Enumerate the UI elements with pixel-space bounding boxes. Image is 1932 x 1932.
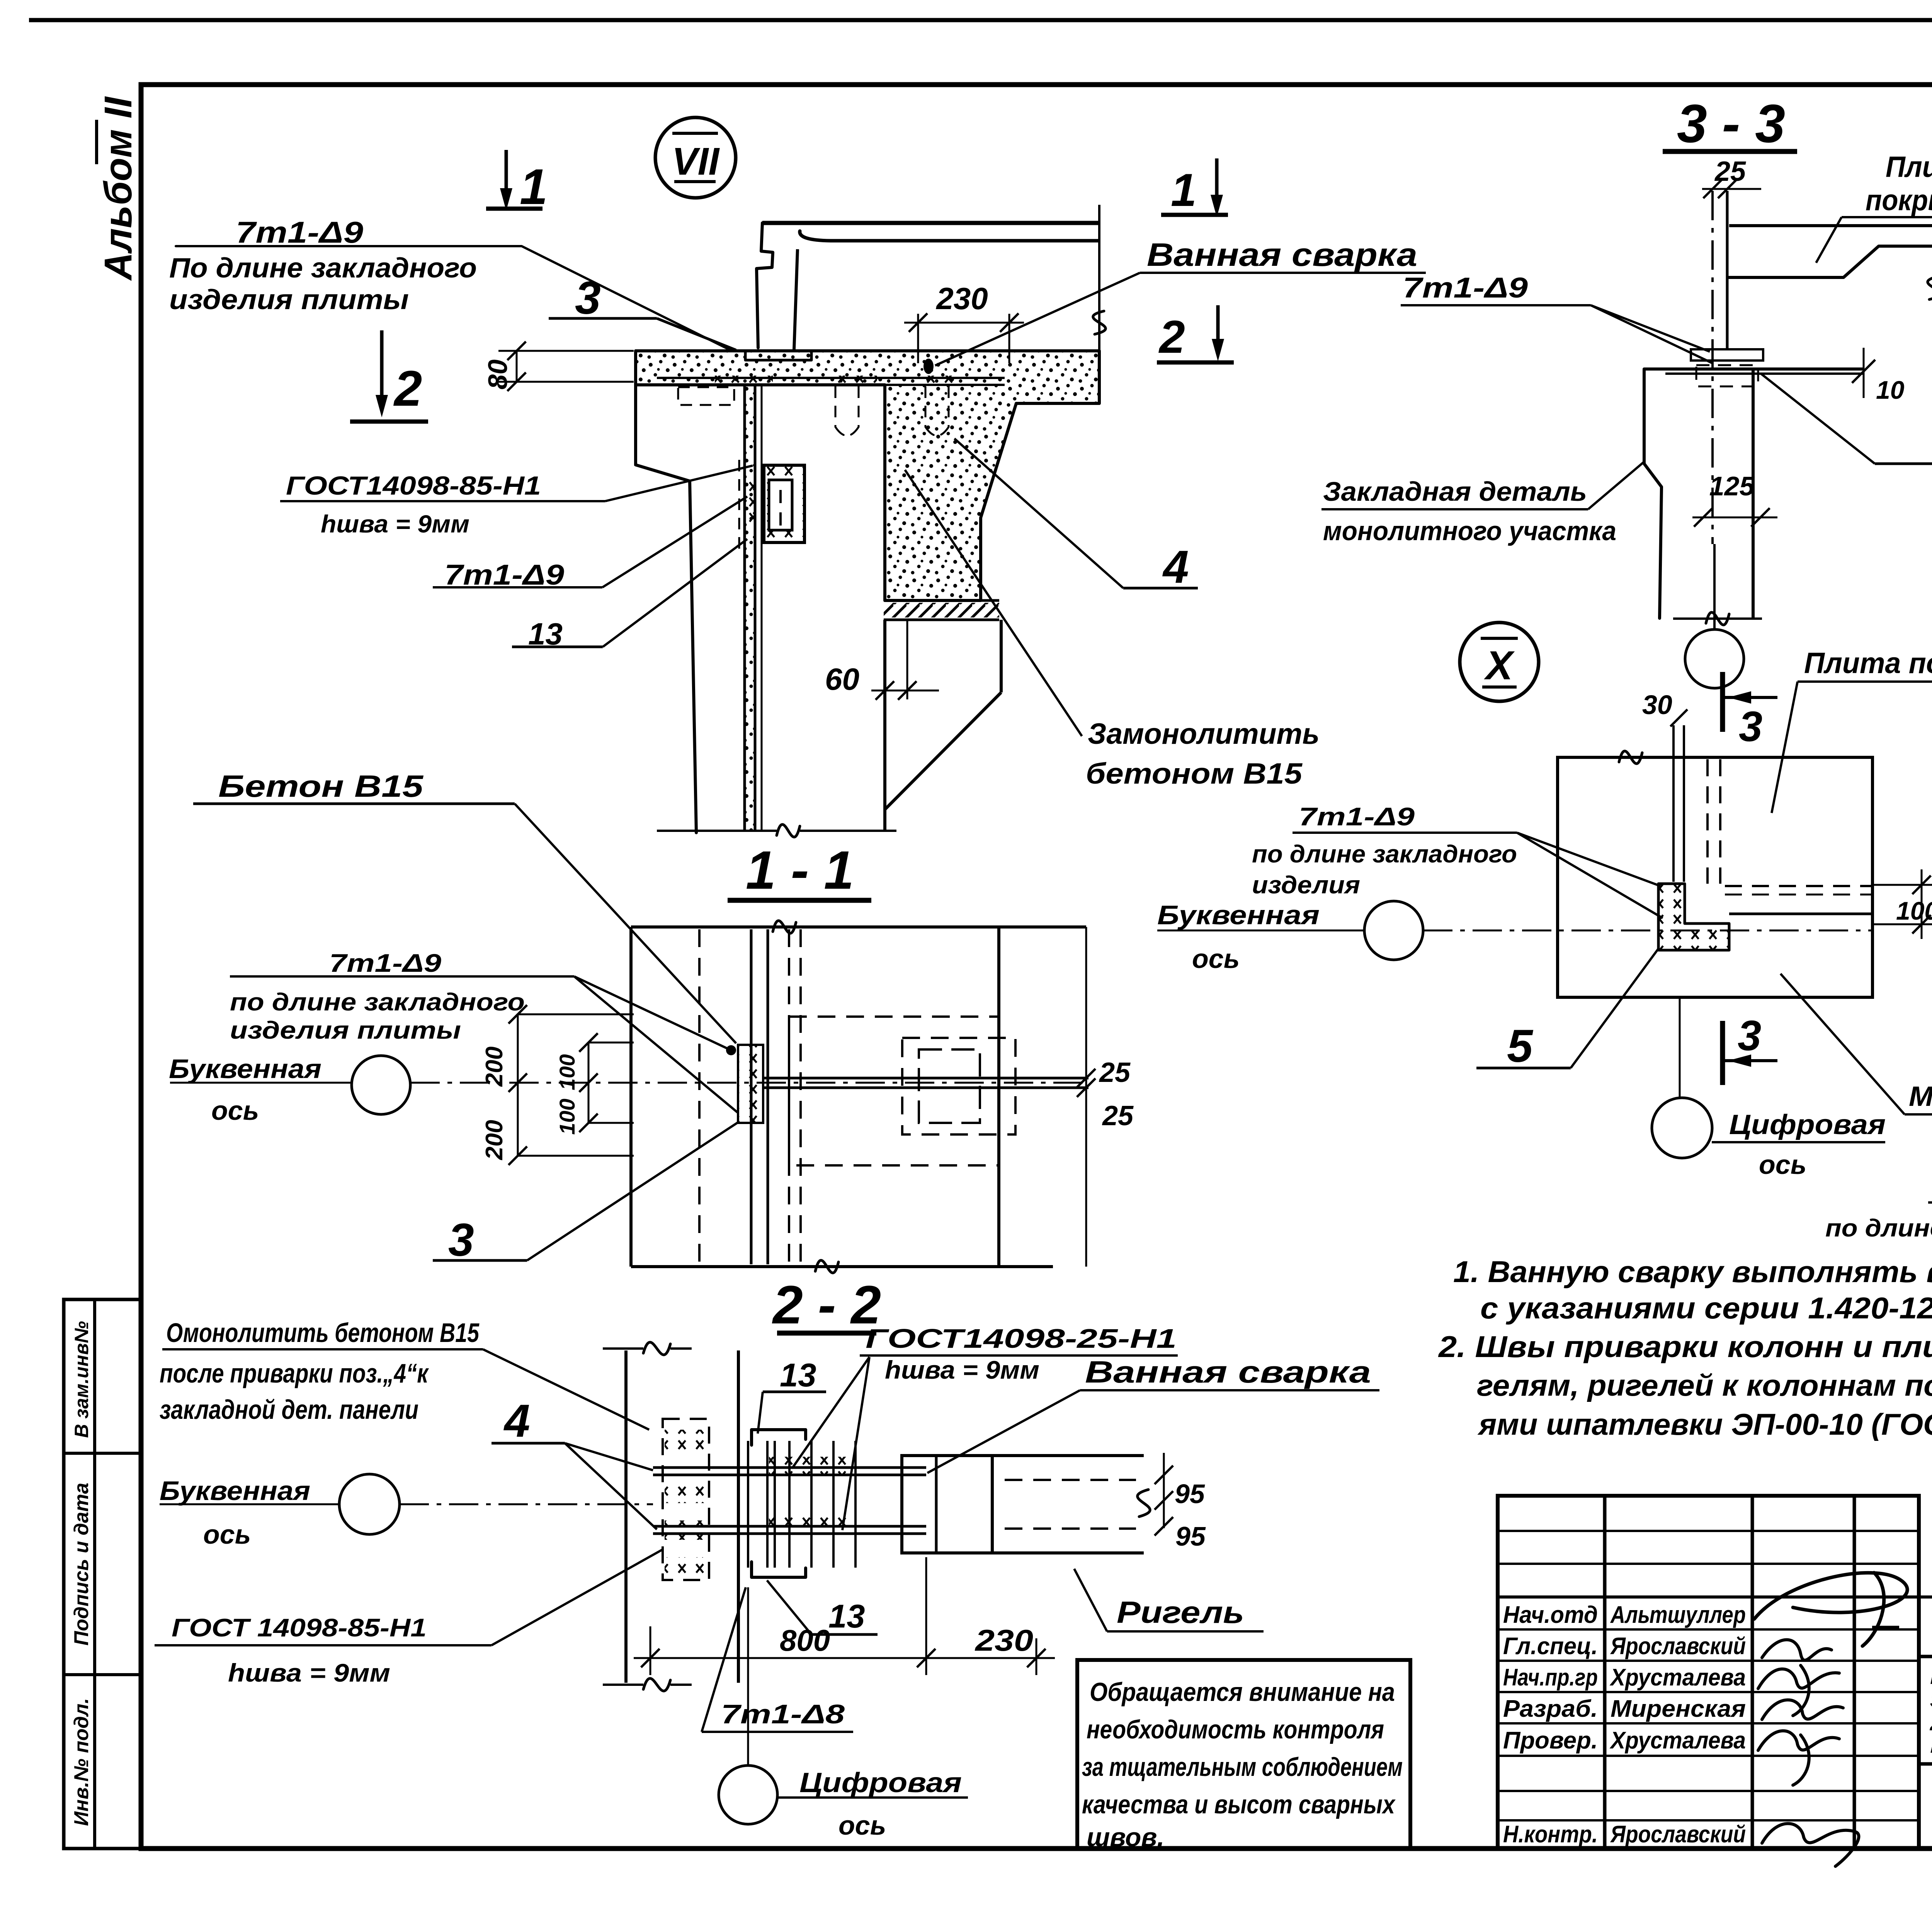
svg-text:Закладная деталь: Закладная деталь bbox=[1323, 476, 1587, 507]
section 3 mark top bbox=[1720, 672, 1725, 732]
svg-text:Миренская: Миренская bbox=[1611, 1696, 1746, 1722]
dim 230 bbox=[917, 314, 919, 363]
svg-text:200: 200 bbox=[481, 1046, 508, 1087]
svg-text:4: 4 bbox=[503, 1395, 530, 1447]
section mark 2 left bbox=[380, 330, 384, 398]
dim 10 bbox=[1852, 360, 1875, 383]
beam lines right bbox=[992, 1454, 1144, 1457]
svg-text:ГОСТ14098-25-Н1: ГОСТ14098-25-Н1 bbox=[866, 1323, 1177, 1354]
svg-text:13: 13 bbox=[780, 1357, 816, 1394]
svg-text:ось: ось bbox=[838, 1810, 886, 1840]
axis letter line bbox=[170, 1082, 351, 1084]
svg-text:3: 3 bbox=[448, 1214, 474, 1266]
embedded plate dashed 2-2 bbox=[663, 1419, 709, 1580]
column below beam bbox=[883, 620, 886, 830]
svg-text:ГОСТ 14098-85-Н1: ГОСТ 14098-85-Н1 bbox=[172, 1613, 427, 1642]
svg-text:с указаниями серии 1.420-12: с указаниями серии 1.420-12. bbox=[1480, 1291, 1932, 1325]
svg-text:Плита покрытия: Плита покрытия bbox=[1804, 647, 1932, 680]
svg-text:В зам.инв№: В зам.инв№ bbox=[71, 1321, 92, 1438]
dashed hidden X bbox=[1706, 759, 1709, 884]
svg-text:Ригель: Ригель bbox=[1117, 1595, 1244, 1629]
svg-text:hшва = 9мм: hшва = 9мм bbox=[321, 510, 469, 538]
signature table bbox=[1498, 1496, 1919, 1849]
embedded plate 1-1 bbox=[738, 1045, 763, 1123]
plate rect X bbox=[1558, 757, 1872, 997]
svg-text:по длине закладного изделия: по длине закладного изделия bbox=[1825, 1214, 1932, 1242]
svg-text:hшва = 9мм: hшва = 9мм bbox=[228, 1658, 390, 1687]
node X circle bbox=[1460, 622, 1539, 701]
rib foot recessed plate bbox=[745, 352, 811, 361]
embedded plate bar bbox=[657, 377, 1005, 379]
axis 2-2 bbox=[160, 1503, 339, 1505]
svg-text:Н.контр.: Н.контр. bbox=[1503, 1821, 1598, 1848]
svg-text:2: 2 bbox=[393, 360, 422, 417]
svg-text:Нач.отд: Нач.отд bbox=[1503, 1602, 1598, 1628]
svg-text:3: 3 bbox=[1739, 703, 1762, 750]
svg-text:ось: ось bbox=[1759, 1150, 1806, 1180]
axis bubble bbox=[352, 1056, 410, 1114]
svg-text:2: 2 bbox=[1158, 311, 1185, 363]
svg-text:Цифровая: Цифровая bbox=[799, 1767, 962, 1798]
wall column 3-3 bbox=[1644, 369, 1662, 618]
axis bubble digit 2-2 bbox=[719, 1765, 777, 1824]
anchor dashes bbox=[678, 387, 734, 405]
node VII circle bbox=[655, 117, 736, 198]
svg-text:Монолитный: Монолитный bbox=[1909, 1081, 1932, 1112]
svg-text:Ванная сварка: Ванная сварка bbox=[1085, 1355, 1371, 1389]
svg-text:ось: ось bbox=[211, 1095, 259, 1126]
dims 100 125 X bbox=[1872, 884, 1932, 886]
svg-text:100: 100 bbox=[555, 1054, 579, 1090]
svg-text:25: 25 bbox=[1099, 1057, 1131, 1088]
embedded angle X bbox=[1658, 884, 1729, 950]
svg-text:Цифровая: Цифровая bbox=[1729, 1109, 1886, 1140]
dim 60 bbox=[906, 620, 908, 699]
hidden panel edge dashed bbox=[698, 929, 701, 1264]
svg-text:гелям, ригелей к колоннам п: гелям, ригелей к колоннам покрыть двумя … bbox=[1477, 1368, 1932, 1402]
svg-text:изделия плиты: изделия плиты bbox=[169, 284, 409, 315]
svg-text:Альтшуллер: Альтшуллер bbox=[1610, 1602, 1746, 1628]
section mark 2 right bbox=[1216, 305, 1220, 344]
svg-text:3: 3 bbox=[1738, 1012, 1761, 1060]
svg-text:1. Ванную сварку выполнять: 1. Ванную сварку выполнять в соответстви… bbox=[1453, 1255, 1932, 1289]
dim 800 bbox=[650, 1626, 651, 1675]
svg-text:Бетон В15: Бетон В15 bbox=[218, 769, 424, 803]
svg-text:нефти и пластовых вод.: нефти и пластовых вод. bbox=[1930, 1730, 1932, 1758]
svg-text:Инв.№ подл.: Инв.№ подл. bbox=[70, 1698, 93, 1826]
svg-text:По длине закладного: По длине закладного bbox=[169, 253, 477, 284]
svg-text:125: 125 bbox=[1709, 471, 1755, 501]
column stipple bbox=[745, 386, 755, 830]
embedded channel box bbox=[764, 465, 804, 543]
dim 100/100 bbox=[588, 1043, 590, 1123]
dim 80 bbox=[498, 350, 634, 352]
svg-text:Альбом II: Альбом II bbox=[97, 96, 140, 281]
right clamp box bbox=[902, 1456, 992, 1553]
svg-text:Хрусталева: Хрусталева bbox=[1609, 1727, 1746, 1754]
section mark 1 left bbox=[505, 150, 508, 193]
svg-text:100: 100 bbox=[1896, 896, 1932, 925]
bath weld dot bbox=[923, 359, 934, 374]
svg-text:1: 1 bbox=[1171, 164, 1197, 216]
section 3 mark bottom bbox=[1720, 1021, 1725, 1085]
svg-text:4: 4 bbox=[1162, 541, 1189, 593]
dashed embed rects bbox=[789, 1017, 999, 1165]
dim 25/25 right bbox=[1077, 1069, 1095, 1087]
joint bars horizontal bbox=[763, 1077, 1088, 1080]
column verticals bbox=[743, 385, 746, 831]
svg-text:ями шпатлевки ЭП-00-10 (ГОСТ: ями шпатлевки ЭП-00-10 (ГОСТ 10277-90). bbox=[1477, 1407, 1932, 1441]
monolithic slab stippled bbox=[636, 351, 1099, 600]
svg-text:80: 80 bbox=[483, 359, 513, 389]
axis bubble 2-2 bbox=[339, 1474, 400, 1534]
svg-text:после приварки поз.„4“к: после приварки поз.„4“к bbox=[160, 1358, 429, 1388]
svg-text:X: X bbox=[1484, 643, 1515, 688]
svg-text:230: 230 bbox=[975, 1623, 1033, 1657]
svg-text:покрытия: покрытия bbox=[1866, 184, 1932, 217]
dim 95/95 bbox=[1163, 1453, 1165, 1528]
svg-text:Гл.спец.: Гл.спец. bbox=[1503, 1633, 1598, 1660]
svg-text:95: 95 bbox=[1175, 1521, 1206, 1551]
svg-text:швов.: швов. bbox=[1087, 1823, 1164, 1852]
svg-text:VII: VII bbox=[672, 140, 720, 183]
dim 200/200 bbox=[517, 1014, 519, 1156]
left margin boxes bbox=[64, 1299, 141, 1849]
svg-text:hшва = 9мм: hшва = 9мм bbox=[885, 1355, 1039, 1384]
svg-text:по длине закладного: по длине закладного bbox=[230, 988, 525, 1016]
panel verticals 2-2 bbox=[624, 1350, 628, 1683]
svg-text:изделия плиты: изделия плиты bbox=[230, 1016, 461, 1044]
svg-text:Омонолитить бетоном В15: Омонолитить бетоном В15 bbox=[166, 1318, 480, 1348]
svg-text:2 - 2: 2 - 2 bbox=[772, 1274, 881, 1335]
joint verticals 3-3 bbox=[1711, 191, 1714, 544]
svg-text:Буквенная: Буквенная bbox=[1157, 900, 1320, 930]
bearing pad hatched bbox=[884, 603, 999, 617]
svg-text:Замонолитить: Замонолитить bbox=[1088, 718, 1320, 750]
view 1-1 plate outline bbox=[631, 925, 1086, 929]
svg-text:95: 95 bbox=[1175, 1479, 1205, 1509]
joint lines vertical bbox=[750, 929, 753, 1264]
svg-text:1: 1 bbox=[520, 158, 548, 215]
signatures squiggles bbox=[1754, 1573, 1907, 1646]
svg-text:ось: ось bbox=[1192, 944, 1240, 974]
svg-text:7т1-Δ8: 7т1-Δ8 bbox=[721, 1699, 845, 1729]
svg-text:ось: ось bbox=[203, 1519, 251, 1549]
roof plate VII bbox=[762, 221, 1099, 225]
svg-text:Ярославский: Ярославский bbox=[1610, 1633, 1746, 1660]
svg-text:ГОСТ14098-85-Н1: ГОСТ14098-85-Н1 bbox=[286, 471, 541, 500]
svg-text:1 - 1: 1 - 1 bbox=[746, 840, 854, 900]
wall top lines bbox=[1644, 367, 1864, 371]
svg-text:Ярославский: Ярославский bbox=[1610, 1821, 1746, 1848]
svg-text:Подпись и дата: Подпись и дата bbox=[70, 1483, 93, 1646]
svg-text:7т1-Δ9: 7т1-Δ9 bbox=[1403, 272, 1528, 304]
svg-text:800: 800 bbox=[780, 1623, 830, 1657]
svg-text:бетоном В15: бетоном В15 bbox=[1086, 757, 1303, 790]
svg-text:качества и высот сварных: качества и высот сварных bbox=[1082, 1790, 1396, 1819]
svg-text:Буквенная: Буквенная bbox=[169, 1054, 321, 1084]
svg-text:Буквенная: Буквенная bbox=[160, 1476, 310, 1506]
svg-text:3: 3 bbox=[575, 272, 601, 324]
svg-text:230: 230 bbox=[935, 281, 988, 316]
svg-text:25: 25 bbox=[1102, 1100, 1134, 1131]
svg-text:10: 10 bbox=[1876, 376, 1905, 404]
section mark 1 right bbox=[1215, 158, 1219, 199]
dim 230 (2-2) bbox=[1036, 1638, 1037, 1675]
svg-text:Нач.пр.гр: Нач.пр.гр bbox=[1503, 1664, 1598, 1691]
svg-text:200: 200 bbox=[481, 1120, 508, 1160]
joint embed 3-3 bbox=[1691, 349, 1763, 361]
svg-text:изделия: изделия bbox=[1252, 871, 1360, 899]
svg-text:100: 100 bbox=[555, 1099, 579, 1134]
svg-text:за тщательным соблюдением: за тщательным соблюдением bbox=[1082, 1752, 1403, 1782]
svg-text:5: 5 bbox=[1507, 1020, 1534, 1072]
wall panel left outline bbox=[634, 351, 637, 466]
svg-text:3 - 3: 3 - 3 bbox=[1677, 93, 1785, 154]
svg-text:30: 30 bbox=[1642, 690, 1672, 720]
svg-text:7т1-Δ9: 7т1-Δ9 bbox=[1299, 802, 1415, 831]
attention box bbox=[1077, 1660, 1410, 1849]
tsifrovaya X bbox=[1652, 1098, 1712, 1158]
top rule bbox=[29, 18, 1932, 22]
svg-text:Разраб.: Разраб. bbox=[1503, 1696, 1598, 1722]
strip stack verticals bbox=[747, 1441, 749, 1568]
svg-text:Ванная сварка: Ванная сварка bbox=[1147, 236, 1417, 273]
svg-text:Обращается внимание на: Обращается внимание на bbox=[1090, 1677, 1395, 1707]
svg-text:Хрусталева: Хрусталева bbox=[1609, 1664, 1746, 1691]
designation row bbox=[1498, 1595, 1932, 1599]
bars horizontal 2-2 bbox=[653, 1466, 926, 1469]
svg-text:монолитного участка: монолитного участка bbox=[1323, 516, 1616, 546]
svg-text:13: 13 bbox=[828, 1598, 865, 1635]
title block divider bbox=[1917, 1496, 1921, 1849]
svg-text:60: 60 bbox=[825, 662, 859, 696]
svg-text:7т1-Δ9: 7т1-Δ9 bbox=[236, 215, 364, 249]
svg-text:2. Швы приварки колонн и пл: 2. Швы приварки колонн и плит к стенам и… bbox=[1438, 1330, 1932, 1364]
axis circle 3-3 bbox=[1713, 544, 1716, 629]
svg-text:необходимость контроля: необходимость контроля bbox=[1087, 1715, 1384, 1744]
svg-text:по длине закладного: по длине закладного bbox=[1252, 840, 1517, 868]
svg-text:Плита: Плита bbox=[1886, 151, 1932, 184]
roof plate 3-3 bbox=[1729, 224, 1932, 227]
svg-text:7т1-Δ9: 7т1-Δ9 bbox=[444, 559, 564, 591]
svg-text:Провер.: Провер. bbox=[1503, 1727, 1598, 1754]
svg-text:7т1-Δ9: 7т1-Δ9 bbox=[329, 949, 441, 977]
svg-text:закладной дет. панели: закладной дет. панели bbox=[160, 1395, 418, 1425]
